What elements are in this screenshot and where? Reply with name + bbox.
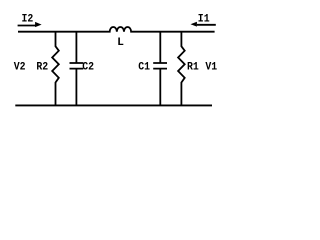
svg-text:C1: C1 (138, 62, 150, 74)
svg-text:V2: V2 (14, 62, 26, 74)
svg-text:C2: C2 (82, 62, 94, 74)
svg-text:I1: I1 (198, 14, 210, 26)
svg-text:R1: R1 (187, 62, 199, 74)
svg-text:V1: V1 (205, 62, 217, 74)
svg-text:L: L (117, 37, 124, 49)
svg-text:I2: I2 (22, 14, 34, 26)
svg-text:R2: R2 (36, 62, 48, 74)
